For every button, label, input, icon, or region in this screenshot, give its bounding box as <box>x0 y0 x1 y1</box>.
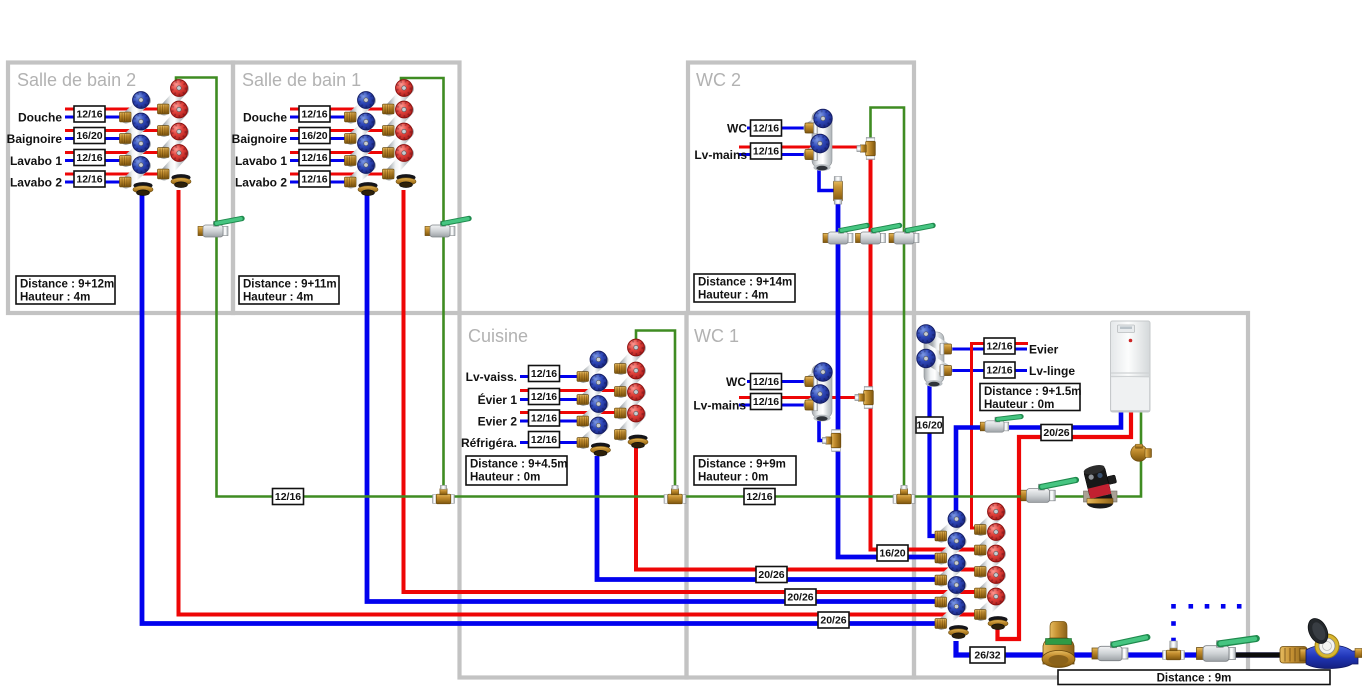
room box WC 1 <box>687 313 915 678</box>
tee brass WC 2 green to red riser <box>857 138 875 160</box>
svg-text:Lavabo 1: Lavabo 1 <box>10 154 62 168</box>
svg-text:Evier: Evier <box>1029 343 1059 357</box>
pipe blue WC 2 fixture stubs <box>739 128 806 155</box>
label 20/26 SdB2 pair <box>818 612 849 628</box>
label 12/16 Refrigerateur Cuisine <box>529 432 560 448</box>
distance box Evier Lv-linge <box>980 384 1081 412</box>
svg-text:Évier 1: Évier 1 <box>478 392 518 407</box>
pipe red Cuisine riser to main red manifold <box>636 448 976 570</box>
svg-text:12/16: 12/16 <box>301 174 327 186</box>
valve green lever main line 2 <box>1197 639 1257 662</box>
svg-text:12/16: 12/16 <box>531 413 557 425</box>
svg-text:16/20: 16/20 <box>879 548 905 560</box>
label 12/16 Lv-vaiss Cuisine <box>529 366 560 382</box>
valve green lever Salle de bain 2 return <box>198 219 242 238</box>
svg-text:Evier 2: Evier 2 <box>478 415 518 429</box>
tee brass bottom line garden branch <box>1163 641 1185 659</box>
fixture labels Evier and Lv-linge <box>1029 343 1075 379</box>
pipe red Cuisine fixture stubs <box>520 391 616 413</box>
label 20/26 boiler hot <box>1041 425 1072 441</box>
svg-text:12/16: 12/16 <box>753 146 779 158</box>
pipe blue Salle de bain 1 riser to main blue manifold <box>367 193 937 602</box>
svg-text:WC: WC <box>726 375 746 389</box>
room title Salle de bain 2 <box>17 70 136 90</box>
pipe blue dotted future branch <box>1171 604 1241 642</box>
pipe blue WC riser to main blue manifold <box>838 184 937 557</box>
manifold blue Salle de bain 2 <box>120 92 154 196</box>
svg-text:12/16: 12/16 <box>531 368 557 380</box>
svg-text:12/16: 12/16 <box>76 109 102 121</box>
tee brass green return WC <box>893 485 915 503</box>
svg-text:Douche: Douche <box>18 111 62 125</box>
pipe red Salle de bain 2 fixture stubs <box>65 109 162 174</box>
pipe blue Evier and Lv-linge stubs <box>951 349 1027 371</box>
room box WC 2 <box>688 63 914 314</box>
valve green lever green riser <box>889 226 933 245</box>
svg-text:Hauteur : 4m: Hauteur : 4m <box>20 292 90 304</box>
label 20/26 Cuisine pair <box>756 567 787 583</box>
pipe blue Salle de bain 2 riser to main blue manifold <box>142 193 937 624</box>
svg-text:16/20: 16/20 <box>916 420 942 432</box>
svg-text:12/16: 12/16 <box>753 376 779 388</box>
room box main technical area <box>914 313 1248 678</box>
manifold red Salle de bain 1 <box>383 80 417 188</box>
pipe blue 16/20 feed to Evier manifold <box>930 380 938 536</box>
pipe blue Salle de bain 2 fixture stubs <box>65 117 126 182</box>
pump circulation hot water return <box>1083 461 1121 508</box>
svg-text:Salle de bain 1: Salle de bain 1 <box>242 70 361 90</box>
pipe red Salle de bain 2 riser to main red manifold <box>179 190 977 615</box>
tee brass green return Cuisine <box>664 485 686 503</box>
svg-text:Distance : 9+4.5m: Distance : 9+4.5m <box>470 459 567 471</box>
room title Salle de bain 1 <box>242 70 361 90</box>
distance box Salle de bain 2 <box>16 276 115 304</box>
label 12/16 Lavabo 1 SdB2 <box>74 150 105 166</box>
valve green lever blue riser <box>823 226 867 245</box>
manifold main blue distribution <box>935 505 969 639</box>
svg-text:Distance : 9+12m: Distance : 9+12m <box>20 279 114 291</box>
pipe red Evier hot feed from red manifold top <box>972 344 1029 529</box>
room title WC 1 <box>694 326 739 346</box>
pipe red Salle de bain 1 riser to main red manifold <box>404 190 977 592</box>
label 12/16 green return SdB2 <box>273 489 304 505</box>
label 12/16 Lavabo 2 SdB2 <box>74 171 105 187</box>
label 12/16 Douche SdB2 <box>74 106 105 122</box>
svg-text:Lv-linge: Lv-linge <box>1029 364 1075 378</box>
manifold blue Evier Lv-linge <box>917 325 952 387</box>
pipe blue WC 1 fixture stubs <box>739 382 806 406</box>
fixture labels Salle de bain 1 <box>232 111 288 190</box>
label 12/16 Lv-linge <box>984 362 1015 378</box>
svg-text:20/26: 20/26 <box>758 569 784 581</box>
svg-text:16/20: 16/20 <box>301 130 327 142</box>
valve green lever main line 1 <box>1092 637 1147 660</box>
svg-text:Cuisine: Cuisine <box>468 326 528 346</box>
pipe blue Cuisine fixture stubs <box>520 377 580 443</box>
distance box Salle de bain 1 <box>239 276 339 304</box>
label 12/16 Lavabo 2 SdB1 <box>299 171 330 187</box>
fitting brass WC 2 blue riser coupler <box>834 177 843 205</box>
svg-text:12/16: 12/16 <box>301 109 327 121</box>
pipe blue Cuisine riser to main blue manifold <box>597 456 937 580</box>
svg-text:16/20: 16/20 <box>76 130 102 142</box>
svg-text:Hauteur : 0m: Hauteur : 0m <box>698 472 768 484</box>
label 16/20 Baignoire SdB1 <box>299 128 330 144</box>
distance box WC 1 <box>694 456 796 485</box>
pipe green return loop Salle de bain 2 to boiler <box>176 78 1141 497</box>
svg-text:Hauteur : 0m: Hauteur : 0m <box>984 399 1054 411</box>
label 12/16 Evier <box>984 338 1015 354</box>
label 12/16 WC2 Lv-mains <box>751 143 782 159</box>
fitting stub on garden tee <box>1170 641 1177 648</box>
svg-text:Distance : 9+11m: Distance : 9+11m <box>243 279 337 291</box>
boiler wall mounted <box>1111 321 1151 412</box>
svg-text:12/16: 12/16 <box>76 152 102 164</box>
svg-text:12/16: 12/16 <box>275 491 301 503</box>
label 12/16 Evier 1 Cuisine <box>529 389 560 405</box>
svg-text:Lavabo 1: Lavabo 1 <box>235 154 287 168</box>
svg-text:Salle de bain 2: Salle de bain 2 <box>17 70 136 90</box>
valve green lever hot return line <box>1021 480 1076 502</box>
pipe red Salle de bain 1 fixture stubs <box>290 109 387 174</box>
svg-text:Lv-vaiss.: Lv-vaiss. <box>466 370 517 384</box>
svg-text:12/16: 12/16 <box>301 152 327 164</box>
manifold blue WC 1 <box>805 363 832 422</box>
svg-text:WC 1: WC 1 <box>694 326 739 346</box>
svg-text:Distance : 9+9m: Distance : 9+9m <box>698 459 786 471</box>
manifold red Salle de bain 2 <box>158 80 192 188</box>
svg-text:12/16: 12/16 <box>753 396 779 408</box>
label 12/16 green return WC <box>744 489 775 505</box>
label 16/20 WC risers <box>877 545 908 561</box>
svg-text:WC: WC <box>727 122 747 136</box>
fixture labels Salle de bain 2 <box>7 111 63 190</box>
label 12/16 Lavabo 1 SdB1 <box>299 150 330 166</box>
room box Salle de bain 1 <box>233 63 460 314</box>
pipe green return loop WC 2 <box>871 108 905 497</box>
svg-text:12/16: 12/16 <box>746 491 772 503</box>
label 12/16 WC1 WC <box>751 374 782 390</box>
manifold main red distribution <box>975 503 1009 629</box>
svg-text:Lv-mains: Lv-mains <box>694 148 747 162</box>
svg-text:Baignoire: Baignoire <box>7 132 63 146</box>
svg-text:26/32: 26/32 <box>974 650 1000 662</box>
svg-text:Distance : 9+1.5m: Distance : 9+1.5m <box>984 386 1081 398</box>
pipe blue WC 1 manifold drop to riser <box>819 419 831 441</box>
svg-text:Douche: Douche <box>243 111 287 125</box>
svg-text:12/16: 12/16 <box>753 123 779 135</box>
water meter with brass coupling <box>1280 615 1362 668</box>
label 12/16 WC2 WC <box>751 120 782 136</box>
svg-text:20/26: 20/26 <box>1043 427 1069 439</box>
valve green lever cold line to boiler <box>980 417 1021 433</box>
pressure reducer brass on main line <box>1042 622 1075 668</box>
fitting brass purger on green line <box>1131 444 1152 461</box>
distance box Cuisine <box>466 456 567 485</box>
svg-text:12/16: 12/16 <box>986 341 1012 353</box>
room box Cuisine <box>460 313 687 678</box>
distance box main line <box>1058 670 1330 685</box>
svg-text:WC 2: WC 2 <box>696 70 741 90</box>
svg-text:12/16: 12/16 <box>986 365 1012 377</box>
fixture labels WC 2 <box>694 122 747 163</box>
manifold blue Salle de bain 1 <box>345 92 379 196</box>
svg-text:12/16: 12/16 <box>76 174 102 186</box>
pipe red WC riser to main red manifold <box>871 157 977 550</box>
svg-text:Baignoire: Baignoire <box>232 132 288 146</box>
label 12/16 Evier 2 Cuisine <box>529 410 560 426</box>
svg-text:12/16: 12/16 <box>531 434 557 446</box>
pipe green return loop Cuisine <box>636 331 675 497</box>
distance box WC 2 <box>694 274 795 302</box>
fixture labels WC 1 <box>693 375 746 413</box>
svg-text:Distance : 9+14m: Distance : 9+14m <box>698 277 792 289</box>
tee brass WC 1 red branch <box>855 387 873 409</box>
pipe blue WC 2 manifold drop to riser <box>819 166 838 191</box>
svg-text:Lv-mains: Lv-mains <box>693 399 746 413</box>
label 12/16 WC1 Lv-mains <box>751 394 782 410</box>
valve green lever Salle de bain 1 return <box>425 219 469 238</box>
svg-text:Distance : 9m: Distance : 9m <box>1157 673 1232 685</box>
label 20/26 SdB1 pair <box>785 589 816 605</box>
label 16/20 Baignoire SdB2 <box>74 128 105 144</box>
tee brass green return Salle de bain 1 <box>433 485 455 503</box>
svg-text:Lavabo 2: Lavabo 2 <box>10 176 62 190</box>
pipe red WC 2 Lv-mains stub <box>739 146 866 149</box>
tee brass WC 1 blue branch <box>822 430 840 452</box>
svg-text:Hauteur : 0m: Hauteur : 0m <box>470 472 540 484</box>
pipe blue main cold to boiler <box>956 412 1121 512</box>
pipe red hot from boiler to red manifold bottom <box>998 412 1132 639</box>
manifold blue Cuisine <box>577 351 611 456</box>
svg-text:Lavabo 2: Lavabo 2 <box>235 176 287 190</box>
pipe blue main cold supply from meter to blue manifold <box>956 641 1310 655</box>
valve green lever red riser <box>856 226 900 245</box>
pipe black meter connection <box>1232 652 1286 657</box>
room title Cuisine <box>468 326 528 346</box>
label 16/20 Evier manifold feed <box>916 417 943 433</box>
svg-text:Hauteur : 4m: Hauteur : 4m <box>698 290 768 302</box>
svg-text:20/26: 20/26 <box>820 615 846 627</box>
fixture labels Cuisine <box>461 370 517 450</box>
label 26/32 main cold <box>970 647 1005 663</box>
svg-text:12/16: 12/16 <box>531 391 557 403</box>
room box Salle de bain 2 <box>8 63 233 314</box>
svg-text:20/26: 20/26 <box>787 592 813 604</box>
manifold blue WC 2 <box>805 109 832 171</box>
label 12/16 Douche SdB1 <box>299 106 330 122</box>
pipe green return loop Salle de bain 1 <box>401 78 444 497</box>
svg-text:Hauteur : 4m: Hauteur : 4m <box>243 292 313 304</box>
pipe red WC 1 Lv-mains stub <box>739 396 862 399</box>
pipe blue Salle de bain 1 fixture stubs <box>290 117 351 182</box>
svg-text:Réfrigéra.: Réfrigéra. <box>461 436 517 450</box>
room title WC 2 <box>696 70 741 90</box>
manifold red Cuisine <box>615 339 649 448</box>
